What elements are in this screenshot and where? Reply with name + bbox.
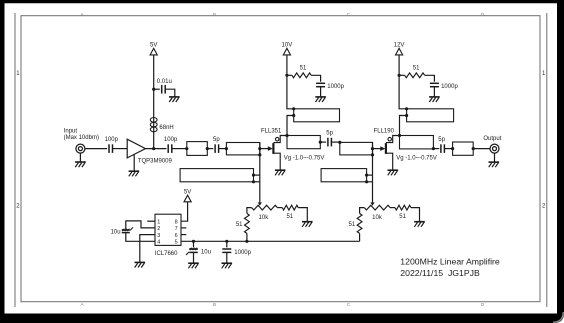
svg-text:B: B bbox=[213, 12, 216, 17]
node 0.01u tap bbox=[152, 88, 155, 91]
wire C8 to ground bbox=[226, 252, 228, 263]
svg-text:A: A bbox=[80, 12, 83, 17]
resistor R5 51 bbox=[357, 213, 362, 233]
wire 5V rail down bbox=[153, 55, 155, 149]
wire to C2 bbox=[154, 88, 160, 90]
node amp output junction bbox=[152, 147, 155, 150]
node TL1 pin1 bbox=[185, 147, 188, 150]
svg-text:7: 7 bbox=[175, 226, 178, 232]
wire VR1 left lead bbox=[247, 208, 252, 214]
svg-text:12V: 12V bbox=[394, 43, 405, 49]
power 5V supply bbox=[150, 48, 157, 55]
stripline TL10 bbox=[453, 142, 474, 155]
svg-text:1000p: 1000p bbox=[327, 84, 344, 90]
wire R3 to -5V rail bbox=[246, 233, 248, 241]
node Q2 drain junction bbox=[398, 134, 401, 137]
svg-text:5V: 5V bbox=[184, 189, 191, 195]
node TL7 pin bbox=[365, 174, 368, 177]
capacitor C6 5p bbox=[327, 138, 329, 147]
svg-text:1000p: 1000p bbox=[234, 250, 251, 256]
stripline TL2 bbox=[226, 143, 259, 155]
wire C7 lead bbox=[193, 241, 195, 247]
node TL10 pin2 bbox=[472, 147, 475, 150]
transistor Q1 FLL351 bbox=[268, 146, 273, 151]
svg-text:100p: 100p bbox=[164, 137, 178, 143]
capacitor C10 1000p bbox=[430, 82, 439, 84]
stripline TL1 bbox=[187, 142, 208, 156]
output connector J2 bbox=[490, 144, 499, 153]
wire U2 pin1 stub bbox=[147, 220, 155, 222]
wire C6 to TL5 bbox=[331, 141, 339, 143]
svg-text:10u: 10u bbox=[201, 250, 211, 256]
wire U2 pin3 to ground bbox=[140, 235, 155, 263]
svg-text:0.01u: 0.01u bbox=[157, 79, 172, 85]
wire C2 to ground bbox=[165, 89, 175, 96]
svg-text:FLL190: FLL190 bbox=[374, 129, 395, 135]
svg-text:2022/11/15 JG1PJB: 2022/11/15 JG1PJB bbox=[400, 268, 480, 278]
svg-text:1: 1 bbox=[157, 219, 160, 225]
node TL5 corner junction bbox=[371, 153, 374, 156]
wire C8 lead bbox=[226, 241, 228, 247]
capacitor C4 5p bbox=[214, 144, 216, 153]
wire R4 to ground bbox=[411, 208, 420, 222]
node R3 rail junction bbox=[245, 240, 248, 243]
svg-text:68nH: 68nH bbox=[159, 125, 173, 131]
svg-text:Output: Output bbox=[483, 136, 501, 142]
svg-text:51: 51 bbox=[413, 66, 420, 72]
ground C10 bbox=[429, 96, 440, 98]
stripline TL6 gate stub bbox=[180, 169, 253, 182]
svg-text:B: B bbox=[213, 302, 216, 307]
svg-text:10V: 10V bbox=[282, 43, 293, 49]
wire TL7 pin stub bbox=[367, 174, 373, 176]
capacitor C5 1000p bbox=[316, 82, 325, 84]
ground Q2 source bbox=[388, 169, 399, 171]
wire VR2 right lead bbox=[390, 207, 395, 209]
wire U2 pin8 to 5V bbox=[181, 202, 188, 221]
node TL4 pin2 bbox=[319, 141, 322, 144]
node TL3 pin bbox=[292, 114, 295, 117]
wire VR1 right lead bbox=[277, 207, 282, 209]
svg-text:(Max 10dbm): (Max 10dbm) bbox=[64, 135, 99, 141]
ground C2 bbox=[169, 96, 180, 98]
svg-text:Vg -1.0~-0.75V: Vg -1.0~-0.75V bbox=[396, 155, 437, 161]
wiper arrow VR2 bbox=[370, 202, 374, 205]
svg-text:ICL7660: ICL7660 bbox=[155, 251, 178, 257]
svg-text:5p: 5p bbox=[438, 137, 445, 143]
svg-text:6: 6 bbox=[175, 233, 178, 239]
power 12V supply bbox=[396, 48, 403, 55]
wire TL6 corner stub bbox=[254, 181, 260, 183]
svg-text:100p: 100p bbox=[105, 137, 119, 143]
ground R2 bbox=[302, 221, 313, 223]
stripline TL8 drain bias stub bbox=[407, 109, 454, 122]
wire R1 lead bbox=[287, 74, 292, 76]
wire C4 to TL2 bbox=[219, 148, 227, 150]
wire TL3 to Q1 drain bbox=[287, 116, 294, 136]
svg-text:2: 2 bbox=[157, 226, 160, 232]
wire input to C1 bbox=[85, 148, 107, 150]
capacitor C11 5p bbox=[440, 144, 442, 153]
wire TL8 to Q2 drain bbox=[400, 116, 407, 136]
node 10V resistor tap bbox=[285, 74, 288, 77]
node TL9 corner out bbox=[432, 147, 435, 150]
wire R1 to C5 bbox=[311, 75, 320, 81]
wire U1 to ground bbox=[133, 155, 135, 171]
wire C3 to TL1 bbox=[172, 148, 187, 150]
wire U1 output bbox=[145, 148, 166, 150]
svg-text:Input: Input bbox=[64, 128, 78, 134]
capacitor C1 100p bbox=[108, 144, 110, 153]
power 5V supply for U2 bbox=[184, 195, 191, 202]
node TL2 pin1 bbox=[225, 147, 228, 150]
svg-text:5p: 5p bbox=[326, 130, 333, 136]
wire C11 to TL10 bbox=[444, 148, 452, 150]
stripline TL5 bbox=[340, 142, 373, 155]
ground Q1 source bbox=[275, 169, 286, 171]
node TL2 pin2 bbox=[258, 147, 261, 150]
stripline TL4 drain line bbox=[287, 136, 320, 149]
wire C10 to ground bbox=[433, 87, 435, 97]
inductor L1 68nH bbox=[150, 118, 157, 123]
ground U1 bbox=[129, 170, 140, 172]
input connector J1 bbox=[76, 144, 85, 153]
svg-text:51: 51 bbox=[399, 214, 406, 220]
svg-text:Vg -1.0~-0.75V: Vg -1.0~-0.75V bbox=[284, 155, 325, 161]
svg-text:51: 51 bbox=[287, 214, 294, 220]
ground input bbox=[75, 161, 86, 163]
svg-text:5V: 5V bbox=[150, 43, 157, 49]
node TL2 corner junction bbox=[258, 153, 261, 156]
ground C7 bbox=[188, 262, 199, 264]
svg-text:10u: 10u bbox=[111, 230, 121, 236]
wire TL2 to Q1 gate bbox=[260, 148, 268, 150]
wire U2 pin2 to C9 plus bbox=[126, 221, 155, 230]
wire U2 pin4 to C9 minus bbox=[126, 233, 155, 242]
wire U2 pin7 stub bbox=[181, 227, 186, 229]
svg-text:3: 3 bbox=[157, 233, 160, 239]
node TL8 pin bbox=[405, 114, 408, 117]
wire Q2 gate bias line bbox=[372, 142, 374, 202]
wire 10V rail down bbox=[287, 55, 294, 109]
IC U2 ICL7660 body bbox=[155, 214, 181, 245]
svg-text:8: 8 bbox=[175, 219, 178, 225]
left margin line bbox=[14, 13, 16, 307]
wire -5V rail bbox=[181, 240, 360, 242]
wire R2 to ground bbox=[298, 208, 307, 222]
capacitor C3 100p bbox=[167, 144, 169, 153]
transistor Q2 FLL190 bbox=[380, 146, 385, 151]
wire TL5 to Q2 gate bbox=[373, 148, 381, 150]
wire R5 to -5V rail bbox=[359, 233, 361, 241]
ground C8 bbox=[222, 262, 233, 264]
node rail C8 junction bbox=[225, 240, 228, 243]
wire Q1 gate bias line bbox=[259, 143, 261, 203]
node TL1 pin2 bbox=[206, 147, 209, 150]
node TL5 corner in bbox=[338, 141, 341, 144]
svg-text:51: 51 bbox=[349, 222, 356, 228]
resistor R3 51 bbox=[245, 213, 250, 233]
svg-text:A: A bbox=[80, 302, 83, 307]
wire C1 to U1 bbox=[113, 148, 128, 150]
wire C7 to ground bbox=[193, 252, 195, 263]
svg-text:FLL351: FLL351 bbox=[261, 129, 282, 135]
op-amp U1 TQP3M9009 bbox=[127, 139, 145, 158]
svg-text:5: 5 bbox=[175, 240, 178, 246]
ground C5 bbox=[315, 96, 326, 98]
wire TL4 to C6 bbox=[320, 141, 326, 143]
resistor R6 51 bbox=[405, 73, 425, 78]
svg-text:51: 51 bbox=[300, 66, 307, 72]
wire output connector to ground bbox=[494, 153, 496, 162]
svg-text:1000p: 1000p bbox=[441, 84, 458, 90]
stripline TL9 drain line bbox=[400, 136, 434, 149]
potentiometer VR1 10k bbox=[252, 205, 278, 210]
wire TL9 to C11 bbox=[433, 148, 439, 150]
node TL3 corner bbox=[292, 107, 295, 110]
capacitor C9 10u pump bbox=[122, 229, 130, 231]
right margin line bbox=[546, 13, 548, 307]
wire 12V rail down bbox=[399, 55, 407, 109]
wire input connector to ground bbox=[79, 153, 81, 162]
wire TL7 corner stub bbox=[367, 181, 373, 183]
stripline TL7 gate stub bbox=[321, 169, 367, 182]
svg-text:4: 4 bbox=[157, 240, 160, 246]
node TL7 corner bbox=[365, 180, 368, 183]
wire TL1 to C4 bbox=[207, 148, 213, 150]
power 10V supply bbox=[283, 48, 290, 55]
svg-text:5p: 5p bbox=[213, 137, 220, 143]
wiper arrow VR1 bbox=[258, 202, 262, 205]
node TL8 corner bbox=[405, 107, 408, 110]
wire U2 pin6 stub bbox=[181, 234, 186, 236]
svg-text:1200MHz Linear Amplifire: 1200MHz Linear Amplifire bbox=[400, 257, 500, 267]
capacitor C2 0.01u bbox=[161, 85, 163, 94]
wire TL6 pin stub bbox=[254, 174, 260, 176]
potentiometer VR2 10k bbox=[364, 205, 390, 210]
capacitor C7 10u bbox=[189, 248, 198, 250]
wire R6 lead bbox=[399, 74, 405, 76]
node rail C7 junction bbox=[192, 240, 195, 243]
svg-text:10k: 10k bbox=[259, 215, 270, 221]
node TL5 pin2 bbox=[371, 147, 374, 150]
stripline TL3 drain bias stub bbox=[294, 109, 340, 122]
node Q1 drain junction bbox=[285, 134, 288, 137]
ground R4 bbox=[414, 221, 425, 223]
svg-text:10k: 10k bbox=[372, 215, 383, 221]
wire TL10 to output bbox=[473, 148, 490, 150]
ground U2 pin3 bbox=[135, 261, 146, 263]
node TL6 corner bbox=[252, 180, 255, 183]
wire C5 to ground bbox=[320, 87, 322, 97]
node TL6 pin bbox=[252, 174, 255, 177]
node 12V resistor tap bbox=[398, 74, 401, 77]
capacitor C8 1000p bbox=[222, 248, 231, 250]
svg-text:TQP3M9009: TQP3M9009 bbox=[138, 158, 173, 164]
resistor R2 51 bbox=[282, 205, 298, 210]
wire R6 to C10 bbox=[425, 75, 435, 81]
node TL10 pin1 bbox=[451, 147, 454, 150]
ground output bbox=[489, 161, 500, 163]
resistor R4 51 bbox=[395, 205, 411, 210]
svg-text:51: 51 bbox=[236, 222, 243, 228]
wire VR2 left lead bbox=[360, 208, 365, 214]
resistor R1 51 bbox=[292, 73, 311, 78]
